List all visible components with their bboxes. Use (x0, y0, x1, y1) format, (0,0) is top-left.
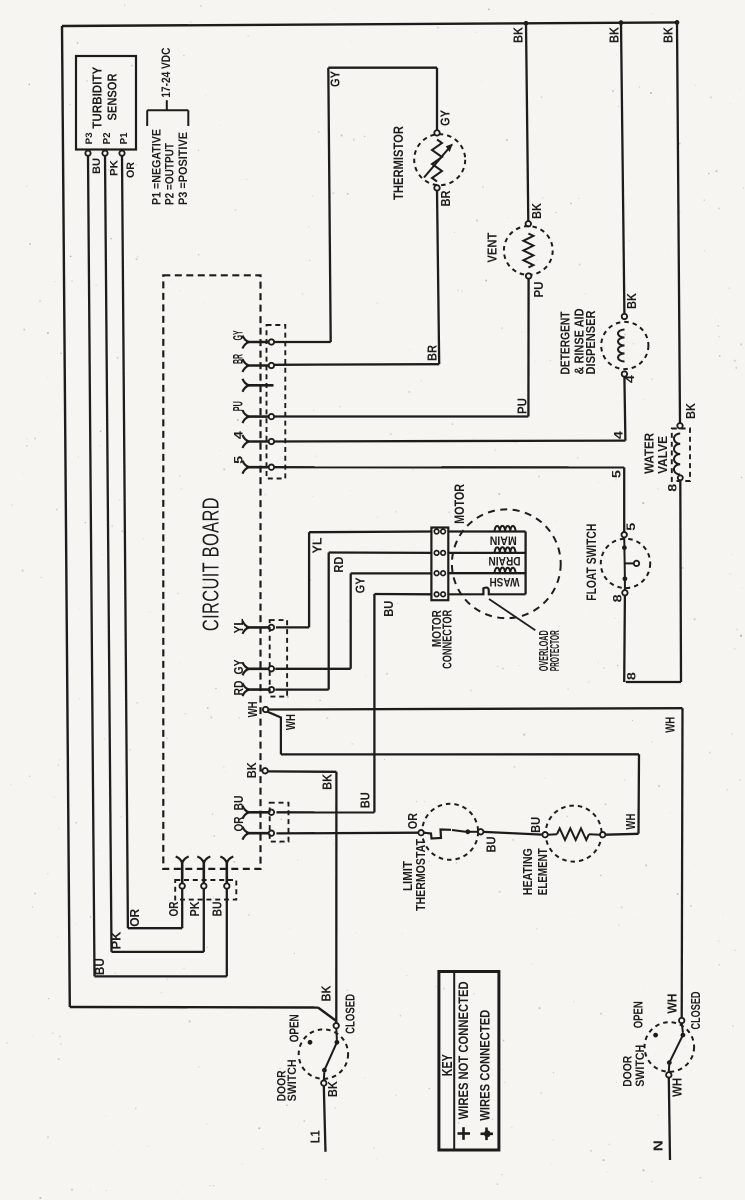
svg-text:BU: BU (232, 796, 246, 811)
svg-text:P1 =NEGATIVE: P1 =NEGATIVE (150, 129, 164, 205)
svg-text:PU: PU (230, 401, 245, 411)
svg-text:BK: BK (684, 403, 698, 419)
svg-text:PK: PK (109, 160, 121, 176)
svg-text:OR: OR (125, 162, 137, 178)
svg-text:VENT: VENT (485, 233, 500, 263)
svg-text:OPEN: OPEN (288, 1014, 302, 1042)
svg-text:MAIN: MAIN (490, 534, 517, 548)
svg-text:THERMISTOR: THERMISTOR (391, 126, 406, 200)
svg-text:P3 =POSITIVE: P3 =POSITIVE (176, 132, 190, 205)
svg-text:BK: BK (326, 1081, 340, 1097)
svg-text:BK: BK (608, 27, 622, 43)
svg-text:4: 4 (612, 431, 626, 439)
svg-text:P3: P3 (83, 132, 94, 144)
svg-text:HEATING: HEATING (520, 848, 535, 895)
svg-text:GY: GY (230, 330, 245, 340)
svg-text:8: 8 (625, 672, 639, 680)
svg-text:SENSOR: SENSOR (104, 73, 119, 120)
svg-text:BU: BU (382, 601, 396, 617)
svg-text:WH: WH (284, 714, 298, 730)
svg-text:8: 8 (666, 483, 680, 491)
svg-text:OPEN: OPEN (631, 1001, 645, 1028)
svg-text:YL: YL (311, 537, 325, 553)
svg-text:5: 5 (624, 522, 638, 530)
svg-text:VALVE: VALVE (655, 435, 670, 473)
svg-text:WIRES NOT CONNECTED: WIRES NOT CONNECTED (456, 981, 472, 1119)
svg-text:OR: OR (406, 813, 420, 829)
svg-text:BU: BU (529, 817, 543, 833)
svg-text:BK: BK (512, 27, 526, 43)
svg-text:GY: GY (439, 109, 453, 126)
svg-text:BR: BR (439, 191, 453, 207)
svg-text:WASH: WASH (490, 575, 520, 589)
svg-text:WH: WH (664, 717, 678, 733)
svg-text:OR: OR (167, 902, 181, 917)
svg-text:SWITCH: SWITCH (634, 1045, 647, 1087)
svg-text:FLOAT SWITCH: FLOAT SWITCH (584, 524, 599, 601)
svg-text:WH: WH (624, 814, 638, 830)
svg-text:17-24 VDC: 17-24 VDC (159, 47, 173, 97)
svg-text:BU: BU (211, 902, 225, 917)
svg-text:DRAIN: DRAIN (489, 554, 521, 568)
svg-text:4: 4 (623, 375, 637, 383)
svg-text:PK: PK (188, 902, 202, 917)
svg-text:DETERGENT: DETERGENT (557, 311, 572, 374)
svg-text:CLOSED: CLOSED (689, 992, 703, 1030)
svg-text:BK: BK (319, 986, 333, 1002)
svg-text:GY: GY (354, 577, 368, 594)
svg-text:WH: WH (670, 1078, 684, 1097)
svg-text:PU: PU (515, 398, 529, 414)
svg-text:YL: YL (232, 618, 246, 633)
svg-text:BU: BU (359, 792, 373, 808)
svg-text:OR: OR (232, 817, 246, 832)
svg-text:MOTOR: MOTOR (452, 484, 467, 524)
svg-text:CONNECTOR: CONNECTOR (440, 610, 455, 669)
svg-text:WH: WH (246, 701, 260, 717)
svg-text:PK: PK (110, 932, 124, 950)
svg-text:BR: BR (426, 345, 440, 361)
svg-text:8: 8 (610, 594, 624, 602)
svg-text:4: 4 (231, 431, 245, 439)
svg-text:P1: P1 (118, 132, 130, 144)
svg-text:WH: WH (665, 994, 679, 1014)
svg-text:BK: BK (662, 27, 676, 43)
svg-text:THERMOSTAT: THERMOSTAT (413, 839, 428, 911)
svg-text:RD: RD (232, 681, 246, 696)
svg-text:GY: GY (329, 70, 343, 87)
svg-text:BK: BK (245, 762, 259, 778)
svg-text:N: N (652, 1140, 666, 1151)
svg-text:KEY: KEY (440, 1054, 456, 1076)
svg-text:5: 5 (231, 456, 245, 464)
svg-text:BR: BR (230, 354, 245, 364)
svg-text:BK: BK (321, 774, 335, 790)
svg-text:P2: P2 (102, 132, 113, 144)
svg-text:DISPENSER: DISPENSER (583, 311, 598, 375)
svg-text:L1: L1 (309, 1130, 323, 1143)
svg-text:ELEMENT: ELEMENT (535, 848, 550, 895)
svg-text:RD: RD (332, 557, 346, 573)
svg-text:GY: GY (232, 659, 246, 674)
svg-text:PROTECTOR: PROTECTOR (547, 630, 562, 671)
svg-text:CLOSED: CLOSED (343, 994, 357, 1034)
svg-text:WIRES CONNECTED: WIRES CONNECTED (478, 1010, 494, 1121)
svg-text:BU: BU (91, 158, 103, 174)
svg-text:TURBIDITY: TURBIDITY (90, 66, 105, 128)
svg-text:BU: BU (485, 837, 499, 853)
svg-text:5: 5 (610, 470, 624, 478)
svg-text:BK: BK (530, 203, 544, 219)
svg-text:SWITCH: SWITCH (286, 1059, 299, 1101)
svg-text:OR: OR (128, 909, 142, 927)
svg-text:BK: BK (625, 293, 639, 309)
svg-text:PU: PU (532, 282, 546, 298)
svg-text:P2 =OUTPUT: P2 =OUTPUT (163, 142, 177, 205)
svg-text:CIRCUIT BOARD: CIRCUIT BOARD (198, 497, 224, 631)
svg-text:DOOR: DOOR (622, 1055, 635, 1086)
svg-text:BU: BU (93, 958, 107, 975)
